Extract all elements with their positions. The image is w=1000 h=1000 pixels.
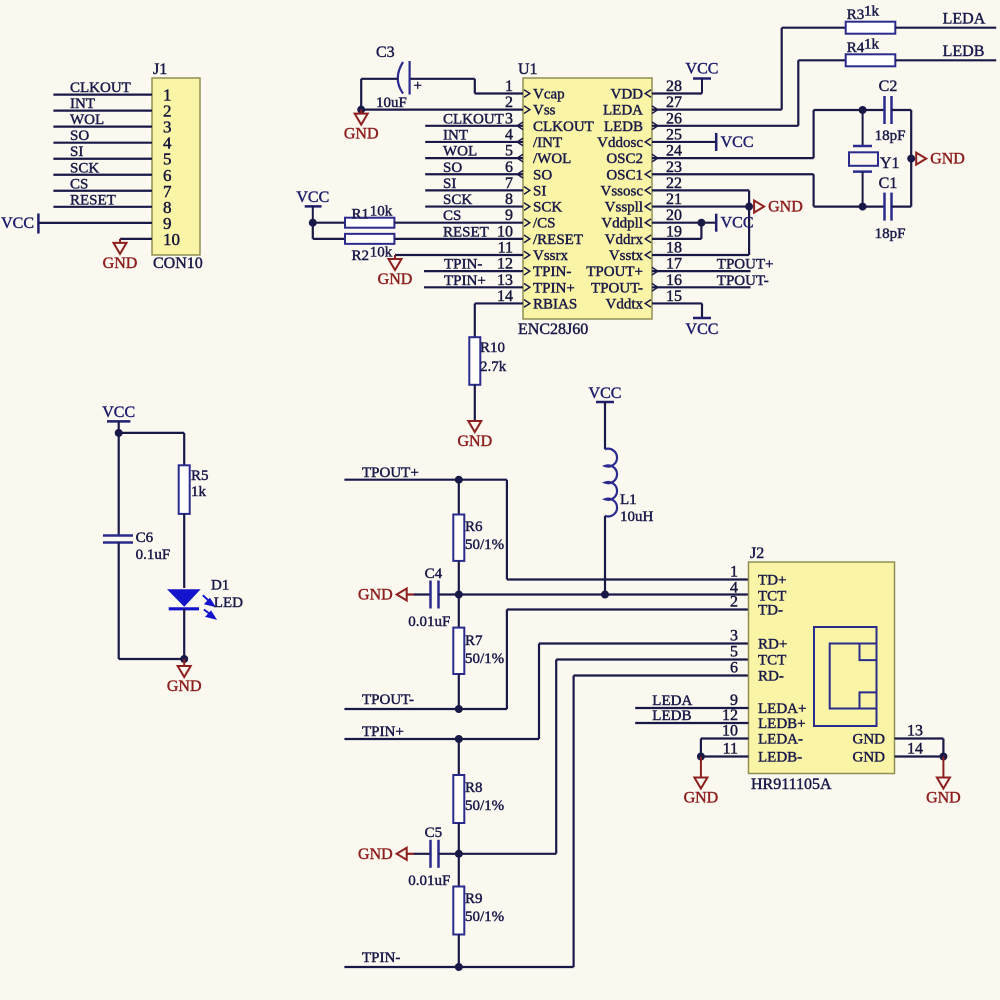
svg-text:C2: C2 (879, 78, 898, 95)
wire R5 to D1 (183, 514, 185, 588)
J2 left pin names (758, 573, 806, 766)
VCC at U1 pin 25 Vddosc (652, 133, 754, 151)
ground at R10 (457, 421, 492, 450)
svg-text:VCC: VCC (102, 404, 135, 421)
svg-text:WOL: WOL (443, 144, 477, 160)
svg-text:GND: GND (344, 126, 379, 143)
svg-text:R1: R1 (352, 207, 370, 223)
svg-text:LEDA: LEDA (943, 11, 986, 28)
svg-text:GND: GND (853, 732, 886, 748)
wire TPIN- to U1 pin 12 (424, 257, 523, 273)
svg-text:VCC: VCC (1, 215, 34, 232)
junction C5 node (455, 850, 463, 858)
junction TPOUT- R7 (455, 705, 463, 713)
svg-text:10: 10 (722, 723, 738, 740)
svg-text:TPOUT-: TPOUT- (591, 280, 643, 296)
svg-text:RESET: RESET (70, 192, 116, 208)
svg-text:GND: GND (926, 790, 961, 807)
svg-text:10uH: 10uH (620, 509, 654, 525)
capacitor C2 18pF (875, 78, 906, 144)
ground at D1 (167, 659, 202, 695)
wire CLKOUT to U1 pin 3 (425, 111, 523, 127)
svg-text:VCC: VCC (686, 321, 719, 338)
svg-text:50/1%: 50/1% (465, 537, 504, 553)
svg-text:CS: CS (70, 176, 88, 192)
svg-text:GND: GND (378, 271, 413, 288)
junction at C3 ground node (357, 106, 365, 114)
ground at C5 (358, 846, 415, 863)
svg-text:/RESET: /RESET (533, 232, 583, 248)
svg-text:RESET: RESET (443, 224, 489, 240)
svg-text:11: 11 (723, 741, 738, 758)
svg-text:GND: GND (358, 587, 393, 604)
svg-text:Vssosc: Vssosc (600, 183, 643, 199)
svg-text:R9: R9 (465, 891, 483, 907)
svg-text:TPIN+: TPIN+ (444, 273, 486, 289)
wire SO to J1 pin 4 (53, 128, 152, 144)
wire CS to U1 pin 9 (394, 208, 523, 224)
capacitor C3 10uF (376, 44, 422, 111)
U1 left pin numbers 1-14 (497, 78, 513, 305)
svg-text:1k: 1k (864, 4, 880, 20)
junction pins 20 19 (697, 219, 705, 227)
junction ground node crystal (907, 155, 915, 163)
wire VCC node to R5 (119, 433, 185, 465)
svg-text:J1: J1 (153, 61, 167, 78)
svg-text:Vsspll: Vsspll (605, 200, 643, 216)
wire J2 pin 11 LEDB- to ground (701, 755, 749, 757)
svg-text:U1: U1 (518, 61, 538, 78)
ground at crystal (916, 151, 965, 168)
svg-text:2.7k: 2.7k (480, 359, 507, 375)
svg-text:CON10: CON10 (153, 255, 203, 272)
resistor R5 1k (179, 465, 209, 514)
svg-text:TPOUT+: TPOUT+ (717, 257, 774, 273)
ground at C4 (358, 587, 415, 604)
svg-text:GND: GND (684, 790, 719, 807)
svg-text:TPIN-: TPIN- (444, 257, 482, 273)
wire TPIN+ to U1 pin 13 (424, 273, 523, 289)
svg-text:LEDA+: LEDA+ (758, 701, 806, 717)
svg-text:Vsstx: Vsstx (609, 248, 644, 264)
wire U1 pin 19 Vddrx to VCC (652, 223, 701, 239)
svg-text:SI: SI (70, 144, 83, 160)
svg-text:INT: INT (443, 127, 468, 143)
connector J2 box (749, 545, 895, 774)
svg-text:/WOL: /WOL (533, 151, 571, 167)
svg-text:/CS: /CS (533, 216, 556, 232)
svg-text:3: 3 (730, 628, 738, 645)
VCC port at R5 (102, 404, 135, 433)
ground at Vssrx (378, 255, 413, 288)
svg-text:SCK: SCK (443, 192, 472, 208)
wire U1 pin 14 RBIAS to R10 (475, 303, 523, 337)
wire D1 to ground node (119, 609, 185, 659)
svg-text:LEDB: LEDB (943, 43, 985, 60)
svg-text:TCT: TCT (758, 653, 786, 669)
svg-text:LEDA-: LEDA- (758, 732, 803, 748)
wire INT to U1 pin 4 (425, 127, 523, 143)
svg-text:TD+: TD+ (758, 573, 786, 589)
wire SI to J1 pin 5 (53, 144, 152, 160)
junction L1 TCT node (601, 591, 609, 599)
svg-text:R4: R4 (847, 40, 865, 56)
wire J2 pin 13 GND (895, 739, 944, 757)
svg-text:HR911105A: HR911105A (751, 776, 832, 793)
svg-text:SCK: SCK (70, 160, 99, 176)
U1 right pin names (586, 87, 643, 313)
wire TPOUT+ line (344, 465, 748, 580)
wire CLKOUT to J1 pin 1 (53, 80, 152, 96)
wire C5 to J2 pin 5 (439, 660, 749, 854)
junction D1 ground (180, 655, 188, 663)
svg-text:TD-: TD- (758, 603, 783, 619)
svg-text:LEDB-: LEDB- (758, 750, 802, 766)
label ENC28J60 (518, 321, 588, 338)
svg-text:C6: C6 (136, 530, 154, 546)
wire C2 to right rail (892, 110, 912, 207)
svg-text:1k: 1k (864, 37, 880, 53)
svg-text:SI: SI (443, 176, 456, 192)
junction VCC to R1 R2 (309, 219, 317, 239)
wire U1 pin 20 Vddpll to VCC (652, 222, 716, 224)
wire R10 to ground (474, 385, 476, 421)
svg-text:R7: R7 (465, 633, 483, 649)
svg-text:50/1%: 50/1% (465, 909, 504, 925)
wire INT to J1 pin 2 (53, 96, 152, 112)
svg-text:GND: GND (457, 433, 492, 450)
wire U1 pin 18 Vsstx to ground node (652, 207, 749, 255)
resistor R1 10k (313, 204, 395, 228)
inductor L1 10uH (605, 449, 654, 525)
svg-text:J2: J2 (750, 545, 764, 562)
resistor R8 50/1% (453, 739, 504, 854)
svg-text:Vddpll: Vddpll (601, 216, 643, 232)
wire TCT line to J2 pin 4 (439, 593, 749, 595)
U1 pin direction arrows (517, 90, 658, 308)
svg-text:L1: L1 (620, 492, 637, 508)
svg-text:GND: GND (853, 750, 886, 766)
svg-text:C4: C4 (425, 566, 443, 582)
svg-text:OSC2: OSC2 (606, 151, 643, 167)
svg-text:SO: SO (533, 167, 552, 183)
svg-text:TPIN-: TPIN- (362, 950, 400, 966)
wire TPOUT- from U1 pin 16 (652, 273, 769, 289)
capacitor C6 0.1uF (103, 433, 170, 659)
junction TPIN- R9 (455, 963, 463, 971)
ground at J2 right (926, 757, 961, 807)
crystal Y1 (849, 110, 900, 207)
svg-text:GND: GND (930, 151, 965, 168)
svg-text:VCC: VCC (686, 61, 719, 78)
svg-text:CLKOUT: CLKOUT (443, 111, 504, 127)
svg-text:2: 2 (730, 594, 738, 611)
junction C4 node (455, 591, 463, 599)
svg-text:LEDB: LEDB (604, 119, 643, 135)
capacitor C5 0.01uF (408, 825, 450, 889)
VCC port at R1 R2 (296, 189, 329, 223)
svg-text:Y1: Y1 (880, 155, 900, 172)
RJ45 jack symbol (814, 627, 877, 726)
wire TPIN- line (344, 676, 748, 968)
resistor R6 50/1% (453, 480, 504, 595)
svg-text:TPOUT-: TPOUT- (362, 692, 414, 708)
svg-text:VCC: VCC (721, 134, 754, 151)
svg-text:RD-: RD- (758, 669, 784, 685)
VCC at U1 pin 28 VDD (652, 61, 718, 94)
svg-text:+: + (414, 78, 422, 94)
wire C1 to right rail (892, 206, 912, 208)
wire U1 pin 23 OSC1 to crystal bottom (652, 174, 885, 206)
svg-text:CLKOUT: CLKOUT (70, 80, 131, 96)
ground at C3 (344, 110, 379, 143)
junction TPOUT+ R6 (455, 476, 463, 484)
svg-text:C3: C3 (376, 44, 395, 61)
wire LEDA net from U1 pin 27 (652, 28, 846, 110)
svg-text:CLKOUT: CLKOUT (533, 119, 594, 135)
label CON10 (153, 255, 203, 272)
wire RESET to J1 pin 8 (53, 192, 152, 208)
VCC port above L1 (589, 385, 622, 449)
VCC at U1 pin 15 Vddtx (652, 303, 718, 338)
svg-text:R6: R6 (465, 519, 483, 535)
wire J2 pin 10 LEDA- to ground (701, 739, 749, 757)
junction crystal bottom (859, 203, 867, 211)
svg-text:R10: R10 (480, 340, 505, 356)
junction J2 right ground (939, 753, 947, 761)
svg-text:GND: GND (358, 846, 393, 863)
wire TPOUT+ from U1 pin 17 (652, 257, 774, 273)
ground at J2 left (684, 757, 719, 807)
wire U1 pin 21 Vsspll to ground node (652, 205, 749, 207)
svg-text:CS: CS (443, 208, 461, 224)
wire J2 pin 14 GND (895, 755, 944, 757)
svg-text:Vcap: Vcap (533, 87, 565, 103)
wire SCK to U1 pin 8 (425, 192, 523, 208)
svg-text:Vddosc: Vddosc (597, 135, 643, 151)
resistor R2 10k (313, 234, 395, 264)
wire CS to J1 pin 7 (53, 176, 152, 192)
resistor R4 1k (846, 37, 896, 67)
svg-text:VCC: VCC (589, 385, 622, 402)
svg-text:OSC1: OSC1 (606, 167, 643, 183)
wire SI to U1 pin 7 (425, 176, 523, 192)
wire L1 to TCT node (604, 516, 606, 595)
resistor R7 50/1% (453, 595, 504, 710)
svg-text:10: 10 (163, 230, 180, 249)
svg-text:18pF: 18pF (875, 128, 906, 144)
wire U1 pin1 Vcap to C3 (409, 79, 523, 94)
svg-text:18pF: 18pF (875, 226, 906, 242)
U1 right pin numbers 28-15 (666, 78, 682, 305)
svg-text:/INT: /INT (533, 135, 562, 151)
svg-text:VCC: VCC (721, 215, 754, 232)
svg-text:0.01uF: 0.01uF (408, 873, 450, 889)
label HR911105A (751, 776, 832, 793)
wire RESET to U1 pin 10 (394, 224, 523, 240)
U1 left pin names (533, 87, 594, 313)
svg-text:50/1%: 50/1% (465, 651, 504, 667)
svg-text:LEDB+: LEDB+ (758, 716, 806, 732)
wire R3 to LEDA label (895, 11, 996, 28)
svg-text:1k: 1k (191, 484, 207, 500)
svg-text:SO: SO (443, 160, 462, 176)
wire LEDB net from U1 pin 26 (652, 60, 846, 126)
svg-text:12: 12 (722, 707, 738, 724)
junction pins 22 21 18 (745, 203, 753, 211)
svg-text:GND: GND (167, 678, 202, 695)
wire U1 pin 11 Vssrx to ground (395, 254, 523, 256)
svg-text:TPIN+: TPIN+ (362, 724, 404, 740)
connector J1 pin numbers (163, 86, 180, 249)
svg-text:0.1uF: 0.1uF (136, 547, 171, 563)
wire SCK to J1 pin 6 (53, 160, 152, 176)
svg-text:LEDA: LEDA (603, 103, 643, 119)
wire U1 pin 22 Vssosc to ground node (652, 190, 749, 206)
svg-text:D1: D1 (211, 578, 229, 594)
svg-text:VDD: VDD (611, 87, 644, 103)
resistor R3 1k (846, 4, 896, 34)
wire TPIN+ line (344, 644, 748, 741)
svg-text:RBIAS: RBIAS (533, 296, 577, 312)
svg-text:Vss: Vss (533, 103, 556, 119)
junction crystal top (859, 106, 867, 114)
svg-text:LED: LED (214, 595, 243, 611)
LED D1 (168, 578, 243, 619)
svg-text:13: 13 (907, 723, 923, 740)
junction VCC R5 C6 (115, 429, 123, 437)
wire WOL to J1 pin 3 (53, 112, 152, 128)
resistor R10 2.7k (469, 337, 506, 385)
wire J1 pin 10 to ground (120, 238, 152, 240)
svg-text:SI: SI (533, 183, 546, 199)
svg-text:6: 6 (730, 660, 738, 677)
svg-text:TPOUT-: TPOUT- (717, 273, 769, 289)
svg-text:Vssrx: Vssrx (533, 248, 569, 264)
J2 pin numbers (722, 564, 923, 758)
svg-text:SO: SO (70, 128, 89, 144)
svg-text:R5: R5 (191, 468, 209, 484)
svg-text:LEDB: LEDB (652, 708, 691, 724)
junction TPIN+ R8 (455, 735, 463, 743)
VCC port at J1 pin 9 (1, 214, 152, 234)
svg-text:GND: GND (103, 255, 138, 272)
resistor R9 50/1% (453, 854, 504, 967)
svg-text:C1: C1 (879, 175, 898, 192)
wire LEDA to J2 pin 9 (635, 693, 748, 709)
svg-text:R3: R3 (847, 7, 865, 23)
capacitor C4 0.01uF (408, 566, 450, 630)
ground at J1 pin 10 (103, 239, 138, 272)
svg-text:LEDA: LEDA (652, 693, 692, 709)
svg-text:R2: R2 (352, 248, 370, 264)
svg-text:GND: GND (768, 199, 803, 216)
svg-text:ENC28J60: ENC28J60 (518, 321, 588, 338)
svg-text:Vddrx: Vddrx (605, 232, 644, 248)
wire U1 pin2 Vss to GND node (361, 79, 523, 110)
svg-text:VCC: VCC (296, 189, 329, 206)
svg-text:SCK: SCK (533, 200, 562, 216)
VCC at Vddpll (716, 214, 753, 232)
J2 right pin names GND GND (853, 732, 886, 766)
wire TPOUT- line (344, 610, 748, 710)
svg-text:50/1%: 50/1% (465, 798, 504, 814)
svg-text:Vddtx: Vddtx (606, 296, 644, 312)
svg-text:10k: 10k (370, 204, 393, 220)
svg-text:RD+: RD+ (758, 637, 787, 653)
ground at Vsspll (754, 199, 803, 216)
wire SO to U1 pin 6 (425, 160, 523, 176)
IC U1 box (518, 61, 652, 319)
svg-text:C5: C5 (425, 825, 443, 841)
svg-text:14: 14 (907, 741, 923, 758)
svg-text:INT: INT (70, 96, 95, 112)
svg-text:5: 5 (730, 644, 738, 661)
svg-text:TPIN+: TPIN+ (533, 280, 575, 296)
svg-text:TPIN-: TPIN- (533, 264, 571, 280)
svg-text:1: 1 (730, 564, 738, 581)
connector J1 box (152, 61, 200, 255)
svg-text:TPOUT+: TPOUT+ (586, 264, 643, 280)
wire LEDB to J2 pin 12 (635, 708, 748, 724)
svg-text:0.01uF: 0.01uF (408, 614, 450, 630)
wire WOL to U1 pin 5 (425, 144, 523, 160)
svg-text:WOL: WOL (70, 112, 104, 128)
wire R4 to LEDB label (895, 43, 996, 60)
capacitor C1 18pF (875, 175, 906, 242)
svg-text:R8: R8 (465, 780, 483, 796)
junction J2 left ground (697, 753, 705, 761)
wire U1 pin 24 OSC2 to crystal top (652, 110, 885, 158)
